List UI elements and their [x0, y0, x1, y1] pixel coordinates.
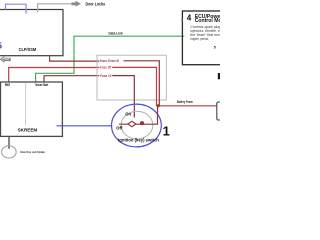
- wire maroon Fuse 10 to ignition switch: [112, 76, 134, 118]
- svg-text:RKE: RKE: [5, 83, 11, 87]
- node wire end dot: [8, 147, 10, 149]
- ignition switch outer circle: [111, 104, 161, 147]
- partial glyph cut off at right edge: [218, 73, 222, 79]
- svg-text:CLP/SSM: CLP/SSM: [19, 47, 37, 53]
- junction battery node: [157, 104, 160, 107]
- wire maroon CLP/SSM to Fuses 25 and 26: [50, 56, 100, 61]
- svg-text:Data Link: Data Link: [2, 58, 11, 62]
- svg-text:4: 4: [187, 14, 192, 23]
- wire red battery power: [157, 105, 217, 107]
- door lock cylinder circle: [2, 146, 17, 158]
- svg-text:Ignition (key) switch: Ignition (key) switch: [118, 137, 159, 142]
- battery connector box (cut off at right): [217, 102, 229, 120]
- switch pivot dot: [140, 121, 144, 125]
- svg-text:SKREEM: SKREEM: [18, 128, 38, 133]
- wire maroon Fuses 25 and 26 down to battery line: [124, 61, 160, 106]
- wire red RKE to Fuse 35: [9, 68, 100, 83]
- svg-text:1: 1: [163, 124, 170, 139]
- arrow data link (left pointing, below CLP/SSM): [0, 57, 10, 62]
- wire blue loop from CLP/SSM top: [6, 4, 27, 13]
- svg-text:Fuses 25 and 26: Fuses 25 and 26: [100, 59, 119, 63]
- svg-text:Fuse 10: Fuse 10: [100, 74, 111, 78]
- svg-text:Door Locks: Door Locks: [86, 1, 106, 7]
- svg-text:Fuse 35: Fuse 35: [100, 65, 111, 69]
- wire switch contact line: [119, 106, 158, 124]
- wire red Fuse 35 down to battery line: [112, 67, 156, 105]
- ignition switch inner circle: [121, 111, 153, 139]
- wire blue SKREEM to ignition switch: [57, 125, 113, 127]
- wire gray to door locks: [38, 4, 72, 13]
- svg-text:Control Module: Control Module: [195, 18, 220, 24]
- svg-text:On: On: [125, 111, 131, 116]
- svg-text:Battery Power: Battery Power: [177, 100, 194, 104]
- svg-text:5: 5: [214, 45, 216, 49]
- svg-text:Data Link: Data Link: [109, 32, 123, 36]
- svg-text:Secure Start: Secure Start: [35, 83, 48, 87]
- wire green data link net: SKREEM to ECU: [36, 36, 185, 82]
- module ECU box: [182, 11, 234, 65]
- svg-text:Off: Off: [116, 126, 123, 131]
- divider inside SKREEM: [25, 83, 27, 126]
- svg-text:Driver Door Lock Cylinder: Driver Door Lock Cylinder: [20, 150, 45, 154]
- svg-text:5: 5: [0, 41, 2, 50]
- fuse box: [97, 55, 166, 100]
- arrow door locks: [72, 1, 81, 7]
- module CLP/SSM box: [0, 10, 63, 56]
- module SKREEM box: [1, 82, 63, 136]
- svg-text:engine, period.: engine, period.: [190, 37, 209, 41]
- switch wiper diamond: [128, 121, 136, 126]
- green connection nub on ECU edge: [181, 19, 183, 21]
- wire maroon Secure Start to Fuse 10: [44, 76, 99, 83]
- wire SKREEM to door lock cylinder: [8, 137, 10, 148]
